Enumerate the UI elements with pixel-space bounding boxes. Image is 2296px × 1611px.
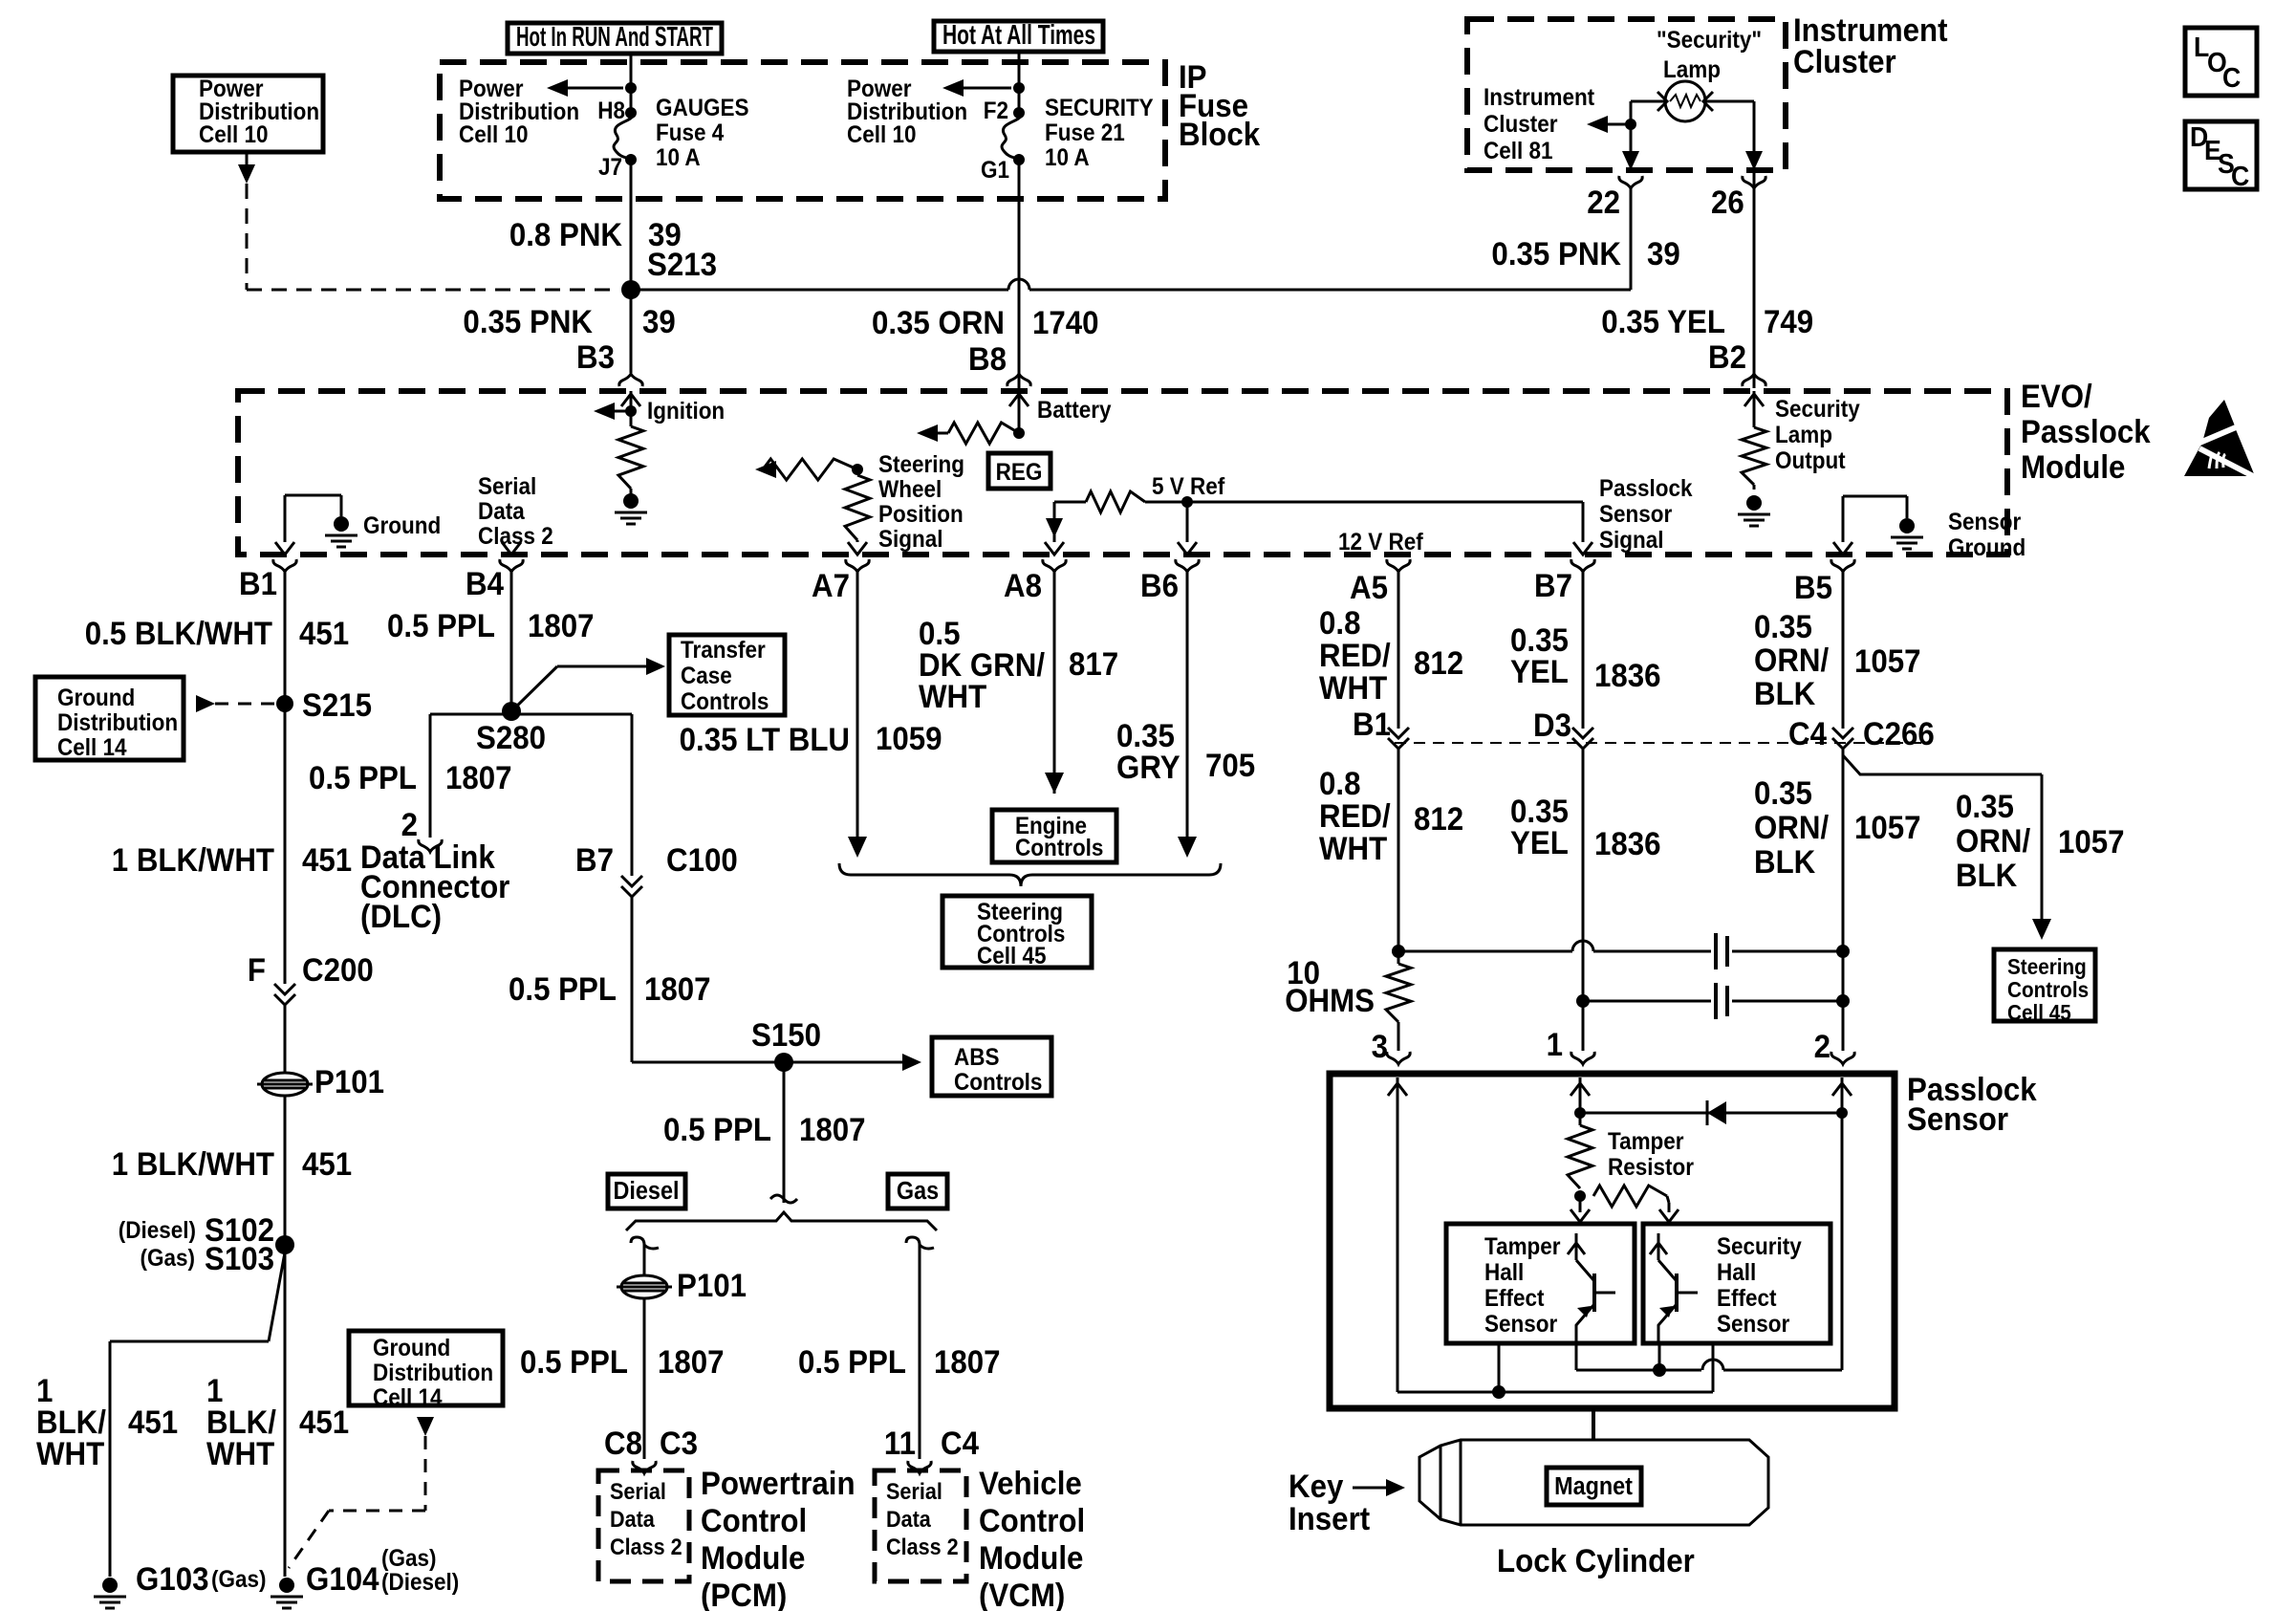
svg-text:812: 812 (1414, 800, 1463, 838)
svg-text:G1: G1 (981, 157, 1009, 184)
svg-text:5 V Ref: 5 V Ref (1152, 473, 1224, 500)
svg-text:11: 11 (884, 1425, 916, 1462)
svg-text:Cluster: Cluster (1793, 43, 1896, 80)
svg-text:Wheel: Wheel (878, 476, 942, 503)
svg-text:1807: 1807 (934, 1343, 1001, 1381)
svg-text:0.8: 0.8 (1319, 765, 1360, 802)
svg-text:Controls: Controls (1015, 835, 1103, 861)
svg-text:0.35: 0.35 (1754, 774, 1812, 812)
svg-text:0.35 LT BLU: 0.35 LT BLU (680, 721, 850, 758)
svg-text:1740: 1740 (1032, 304, 1099, 341)
svg-text:1807: 1807 (799, 1111, 866, 1148)
svg-text:749: 749 (1764, 303, 1813, 340)
svg-text:Class 2: Class 2 (886, 1534, 959, 1559)
svg-text:Security: Security (1717, 1233, 1802, 1260)
svg-text:Powertrain: Powertrain (701, 1465, 856, 1502)
svg-text:0.35 PNK: 0.35 PNK (1491, 235, 1621, 272)
svg-text:B3: B3 (576, 338, 615, 376)
svg-text:0.5 PPL: 0.5 PPL (309, 759, 417, 796)
svg-text:451: 451 (302, 841, 352, 879)
svg-text:Cluster: Cluster (1484, 111, 1557, 138)
svg-text:"Security": "Security" (1657, 27, 1762, 54)
svg-text:2: 2 (401, 806, 418, 843)
svg-text:0.5 PPL: 0.5 PPL (387, 607, 495, 644)
svg-text:EVO/: EVO/ (2021, 378, 2092, 415)
svg-text:1 BLK/WHT: 1 BLK/WHT (112, 841, 274, 879)
svg-text:Hall: Hall (1484, 1259, 1524, 1286)
svg-text:Gas: Gas (897, 1178, 939, 1205)
svg-text:C: C (2222, 62, 2241, 93)
svg-text:Data: Data (886, 1506, 931, 1532)
svg-text:Case: Case (681, 663, 732, 689)
svg-text:0.5 PPL: 0.5 PPL (520, 1343, 628, 1381)
svg-text:Data: Data (478, 498, 525, 525)
svg-text:451: 451 (302, 1145, 352, 1183)
svg-text:1057: 1057 (1854, 642, 1921, 680)
svg-text:1836: 1836 (1594, 825, 1661, 862)
svg-text:P101: P101 (677, 1267, 747, 1304)
svg-text:Effect: Effect (1484, 1285, 1545, 1312)
svg-text:451: 451 (299, 1404, 349, 1441)
svg-text:Output: Output (1775, 447, 1846, 474)
svg-text:F: F (248, 951, 266, 989)
svg-text:Tamper: Tamper (1484, 1233, 1561, 1260)
svg-text:GRY: GRY (1116, 749, 1180, 786)
svg-text:ABS: ABS (954, 1044, 999, 1071)
svg-text:A8: A8 (1004, 567, 1042, 604)
svg-text:Cell 10: Cell 10 (459, 121, 528, 148)
svg-text:Insert: Insert (1289, 1500, 1370, 1537)
svg-text:A7: A7 (812, 567, 850, 604)
svg-text:Cell 45: Cell 45 (977, 943, 1046, 969)
svg-text:Serial: Serial (886, 1478, 942, 1504)
svg-text:1807: 1807 (658, 1343, 725, 1381)
svg-text:Signal: Signal (1599, 527, 1663, 554)
svg-text:Sensor: Sensor (1599, 501, 1672, 528)
svg-text:WHT: WHT (1319, 669, 1387, 707)
svg-text:1057: 1057 (2058, 823, 2125, 860)
svg-text:Transfer: Transfer (681, 637, 766, 664)
svg-text:BLK: BLK (1956, 857, 2018, 894)
svg-text:(DLC): (DLC) (360, 898, 442, 935)
svg-text:Resistor: Resistor (1608, 1154, 1694, 1181)
svg-text:D3: D3 (1533, 707, 1571, 744)
svg-text:SECURITY: SECURITY (1045, 95, 1154, 121)
svg-text:ORN/: ORN/ (1956, 822, 2030, 860)
svg-text:WHT: WHT (919, 678, 986, 715)
svg-text:B4: B4 (466, 565, 504, 602)
svg-text:F2: F2 (984, 98, 1008, 124)
svg-text:Key: Key (1289, 1468, 1343, 1505)
svg-text:REG: REG (996, 459, 1043, 486)
svg-text:Module: Module (701, 1539, 805, 1577)
svg-text:B7: B7 (575, 841, 614, 879)
svg-text:Control: Control (701, 1502, 807, 1539)
svg-text:Module: Module (979, 1539, 1083, 1577)
svg-text:Distribution: Distribution (373, 1360, 493, 1386)
svg-text:Magnet: Magnet (1554, 1473, 1633, 1500)
svg-text:Cell 81: Cell 81 (1484, 138, 1552, 164)
svg-text:Position: Position (878, 501, 964, 528)
svg-text:0.5 PPL: 0.5 PPL (798, 1343, 906, 1381)
svg-text:10 A: 10 A (656, 144, 701, 171)
svg-text:Steering: Steering (2007, 954, 2087, 979)
svg-text:Cell 10: Cell 10 (199, 121, 268, 148)
svg-text:Module: Module (2021, 448, 2125, 486)
svg-text:(PCM): (PCM) (701, 1577, 787, 1611)
svg-text:Sensor: Sensor (1907, 1100, 2008, 1138)
svg-text:B7: B7 (1534, 567, 1572, 604)
svg-text:Hot In RUN And START: Hot In RUN And START (516, 22, 713, 53)
svg-text:Data: Data (610, 1506, 655, 1532)
svg-text:C8: C8 (604, 1425, 642, 1462)
svg-text:26: 26 (1711, 184, 1744, 221)
svg-text:G103: G103 (136, 1560, 208, 1598)
svg-text:0.35 ORN: 0.35 ORN (872, 304, 1005, 341)
svg-text:0.35: 0.35 (1956, 788, 2014, 825)
svg-text:1807: 1807 (644, 970, 711, 1008)
svg-text:0.35 YEL: 0.35 YEL (1601, 303, 1725, 340)
svg-text:Ground: Ground (57, 685, 135, 711)
svg-text:Class 2: Class 2 (478, 523, 553, 550)
svg-text:RED/: RED/ (1319, 797, 1391, 835)
svg-text:Sensor: Sensor (1484, 1311, 1557, 1338)
svg-text:Lamp: Lamp (1663, 56, 1721, 83)
svg-text:Class 2: Class 2 (610, 1534, 682, 1559)
svg-text:Ignition: Ignition (647, 398, 725, 425)
svg-text:B6: B6 (1140, 567, 1179, 604)
svg-text:1 BLK/WHT: 1 BLK/WHT (112, 1145, 274, 1183)
svg-text:Fuse 21: Fuse 21 (1045, 120, 1125, 146)
svg-text:1057: 1057 (1854, 809, 1921, 846)
svg-text:Passlock: Passlock (1599, 475, 1693, 502)
svg-text:(Gas): (Gas) (211, 1566, 266, 1593)
svg-text:Lock Cylinder: Lock Cylinder (1497, 1542, 1695, 1579)
svg-text:BLK: BLK (1754, 675, 1816, 712)
svg-text:Cell 14: Cell 14 (373, 1384, 443, 1411)
svg-text:Controls: Controls (681, 688, 769, 715)
svg-text:Fuse 4: Fuse 4 (656, 120, 725, 146)
svg-text:B8: B8 (968, 340, 1007, 378)
svg-text:(Diesel): (Diesel) (119, 1217, 196, 1244)
svg-text:BLK: BLK (1754, 843, 1816, 881)
svg-text:S215: S215 (302, 686, 372, 724)
svg-text:1807: 1807 (528, 607, 595, 644)
svg-text:Battery: Battery (1037, 397, 1112, 424)
svg-text:Tamper: Tamper (1608, 1128, 1684, 1155)
svg-text:B1: B1 (1353, 706, 1391, 743)
svg-text:P101: P101 (314, 1063, 384, 1100)
svg-text:S103: S103 (205, 1240, 274, 1277)
svg-text:GAUGES: GAUGES (656, 95, 748, 121)
svg-text:OHMS: OHMS (1285, 982, 1375, 1019)
svg-text:ORN/: ORN/ (1754, 809, 1829, 846)
svg-text:(Diesel): (Diesel) (381, 1569, 459, 1596)
svg-text:0.5 PPL: 0.5 PPL (663, 1111, 771, 1148)
svg-text:Cell 45: Cell 45 (2007, 1000, 2071, 1025)
svg-text:S280: S280 (476, 719, 546, 756)
svg-text:Hot At All Times: Hot At All Times (942, 20, 1095, 51)
svg-text:0.5 PPL: 0.5 PPL (509, 970, 617, 1008)
svg-text:C100: C100 (666, 841, 738, 879)
svg-text:Sensor: Sensor (1948, 509, 2021, 535)
svg-text:Security: Security (1775, 396, 1860, 423)
svg-text:C4: C4 (941, 1425, 979, 1462)
svg-text:WHT: WHT (206, 1435, 274, 1472)
svg-text:WHT: WHT (36, 1435, 104, 1472)
svg-text:3: 3 (1372, 1028, 1388, 1065)
svg-text:1059: 1059 (876, 720, 942, 757)
svg-text:Sensor: Sensor (1717, 1311, 1789, 1338)
svg-text:0.8 PNK: 0.8 PNK (509, 216, 623, 253)
svg-text:2: 2 (1814, 1028, 1830, 1065)
svg-text:0.5 BLK/WHT: 0.5 BLK/WHT (85, 615, 272, 652)
svg-text:B2: B2 (1708, 338, 1746, 376)
svg-text:Hall: Hall (1717, 1259, 1756, 1286)
svg-text:C: C (2231, 161, 2249, 191)
svg-text:C4: C4 (1788, 715, 1827, 752)
svg-text:Block: Block (1179, 116, 1261, 153)
svg-text:A5: A5 (1350, 569, 1388, 606)
svg-text:YEL: YEL (1510, 653, 1569, 690)
svg-text:1807: 1807 (445, 759, 512, 796)
svg-text:22: 22 (1587, 184, 1620, 221)
svg-text:Steering: Steering (878, 451, 964, 478)
svg-text:Distribution: Distribution (57, 709, 178, 736)
svg-text:G104: G104 (306, 1560, 379, 1598)
svg-text:Serial: Serial (610, 1478, 666, 1504)
svg-text:YEL: YEL (1510, 824, 1569, 861)
svg-text:Instrument: Instrument (1484, 84, 1594, 111)
svg-text:(Gas): (Gas) (141, 1245, 195, 1272)
svg-text:S213: S213 (647, 246, 717, 283)
svg-text:Cell 10: Cell 10 (847, 121, 916, 148)
svg-text:Controls: Controls (2007, 977, 2089, 1002)
svg-text:Controls: Controls (954, 1069, 1042, 1096)
svg-text:S150: S150 (751, 1016, 821, 1054)
svg-text:Lamp: Lamp (1775, 422, 1832, 448)
svg-text:12 V Ref: 12 V Ref (1338, 529, 1423, 555)
svg-text:H8: H8 (597, 98, 625, 124)
svg-text:WHT: WHT (1319, 830, 1387, 867)
svg-text:Ground: Ground (373, 1335, 450, 1361)
svg-text:0.35 PNK: 0.35 PNK (463, 303, 593, 340)
svg-text:J7: J7 (598, 154, 622, 181)
svg-text:(VCM): (VCM) (979, 1577, 1065, 1611)
svg-text:Vehicle: Vehicle (979, 1465, 1082, 1502)
svg-text:C200: C200 (302, 951, 374, 989)
svg-text:Passlock: Passlock (2021, 413, 2151, 450)
svg-text:Diesel: Diesel (614, 1178, 680, 1205)
svg-text:Ground: Ground (1948, 534, 2025, 561)
svg-text:39: 39 (1647, 235, 1680, 272)
svg-text:B1: B1 (239, 565, 277, 602)
svg-text:0.35: 0.35 (1754, 608, 1812, 645)
svg-text:Effect: Effect (1717, 1285, 1777, 1312)
svg-text:705: 705 (1205, 747, 1255, 784)
svg-text:Cell 14: Cell 14 (57, 734, 127, 761)
svg-text:1: 1 (1547, 1026, 1563, 1063)
svg-text:10 A: 10 A (1045, 144, 1090, 171)
svg-text:Ground: Ground (363, 512, 441, 539)
svg-text:1836: 1836 (1594, 657, 1661, 694)
svg-text:B5: B5 (1794, 569, 1832, 606)
svg-text:ORN/: ORN/ (1754, 642, 1829, 679)
svg-text:451: 451 (299, 615, 349, 652)
svg-text:39: 39 (642, 303, 676, 340)
svg-text:Serial: Serial (478, 473, 536, 500)
svg-text:RED/: RED/ (1319, 637, 1391, 674)
svg-text:451: 451 (128, 1404, 178, 1441)
svg-text:C3: C3 (660, 1425, 698, 1462)
svg-text:C266: C266 (1863, 715, 1935, 752)
svg-text:817: 817 (1069, 645, 1118, 683)
svg-text:812: 812 (1414, 644, 1463, 682)
svg-text:0.8: 0.8 (1319, 604, 1360, 642)
svg-text:Control: Control (979, 1502, 1085, 1539)
svg-text:Signal: Signal (878, 526, 942, 553)
